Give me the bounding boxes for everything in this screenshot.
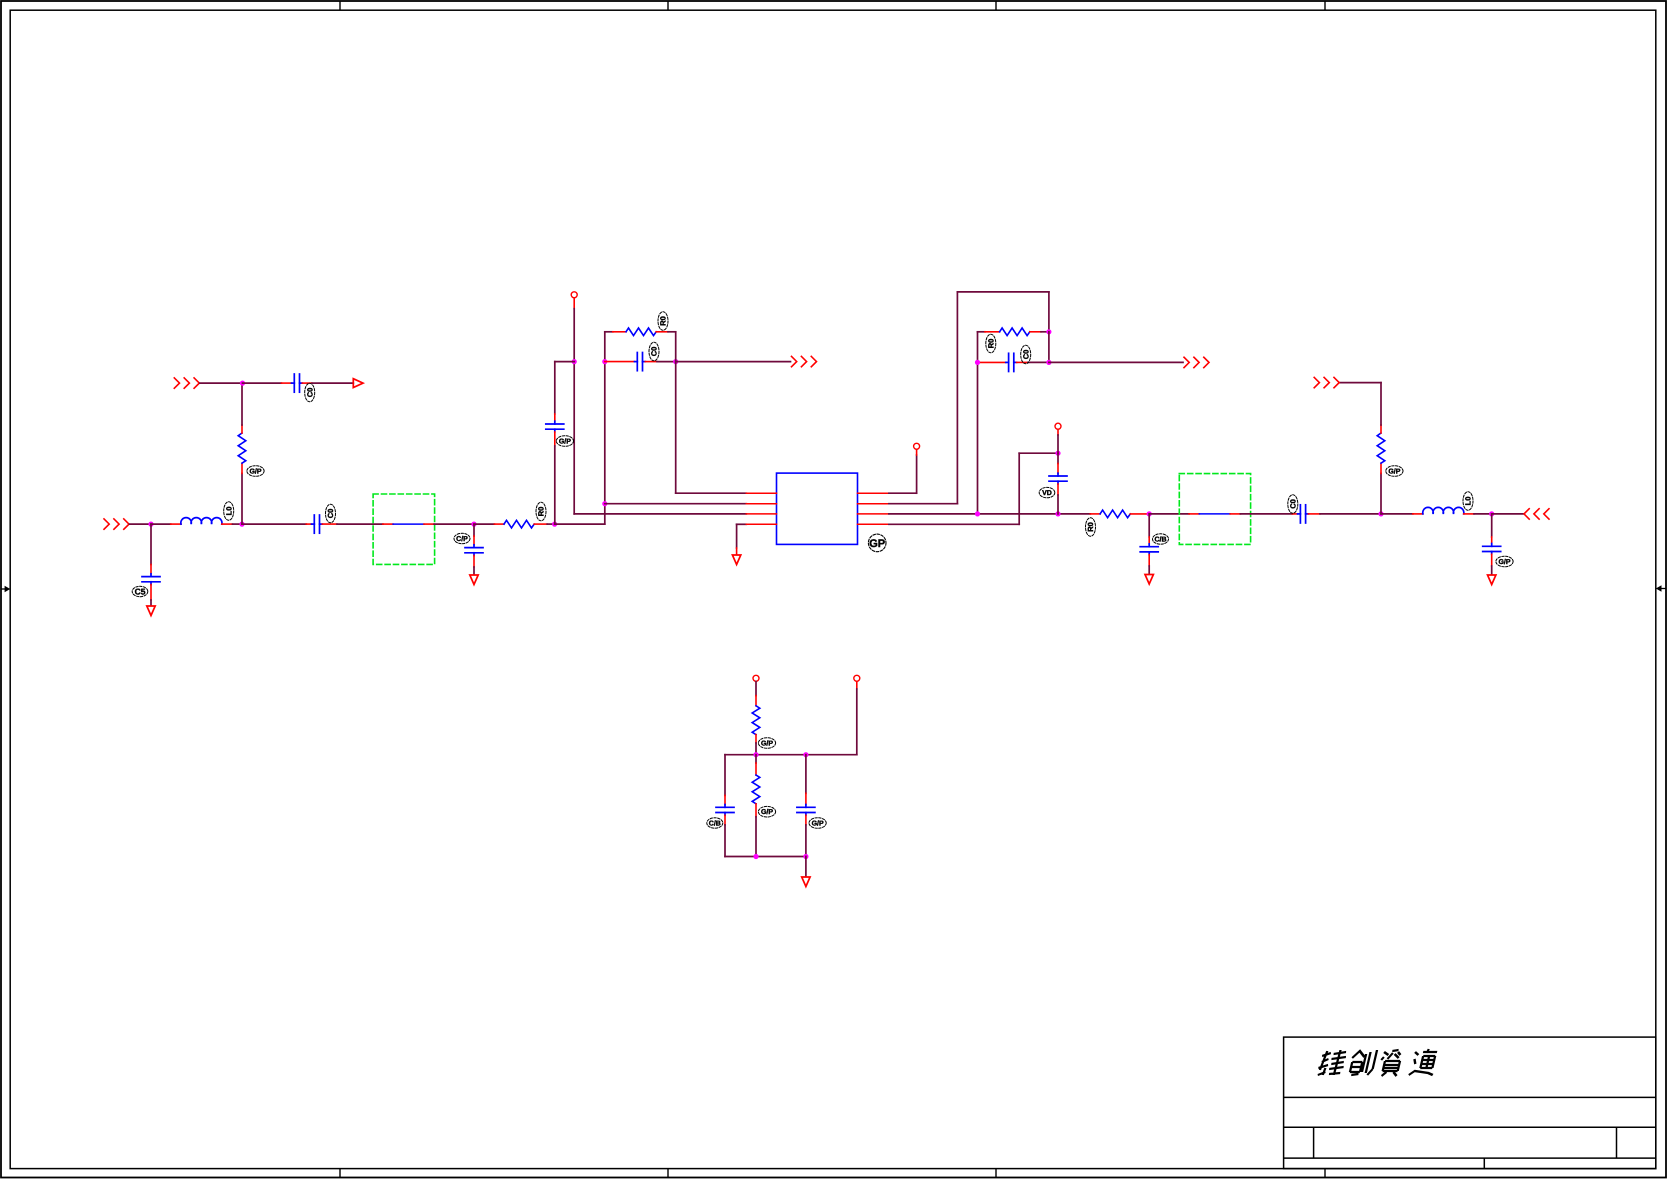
svg-text:C/B: C/B [709,819,721,827]
wire [151,523,171,525]
TITLE BLOCK [1284,1037,1656,1169]
inductor L2 [1413,507,1474,513]
capacitor C0 (series, top left) [281,374,312,392]
pin 8 right [858,492,889,494]
node junction [240,381,245,386]
node junction [1489,511,1494,516]
wire rail down [977,332,979,514]
inductor L1 [171,518,233,524]
wire [1320,513,1381,515]
top bus wire [725,754,857,756]
zone tick bottom 3 [995,1169,997,1178]
variant box 2 (green dashed) [1179,474,1250,545]
svg-text:G/P: G/P [812,819,824,827]
label C3 [649,342,659,361]
capacitor C2 (series on main line) [306,515,337,533]
svg-text:G/P: G/P [761,740,773,748]
row1 wire [676,492,747,494]
wire to output connector [1049,361,1183,363]
label C9 [1288,495,1298,514]
glyph 緯 [1317,1050,1348,1075]
node junction [471,522,476,527]
resistor R6 (vertical right) [1377,425,1385,473]
pin 7 right [858,503,889,505]
row2 wire top loop [889,292,1049,504]
node junction [1046,360,1051,365]
pin 1 left [746,492,776,494]
wire [1381,513,1413,515]
row4 wire loop [889,453,1058,524]
wire [150,524,152,564]
connector J5 >>> (top right in) [1314,377,1339,387]
open arrow out [353,379,363,388]
right branch: wire [805,755,807,805]
svg-text:C0: C0 [650,347,659,357]
node junction [148,522,153,527]
row3 wire from pin line [574,513,746,515]
wire [434,523,474,525]
variant box (green dashed) [373,494,435,564]
row1 wire to power pin [889,450,917,494]
zone tick bottom 4 [1324,1169,1326,1178]
wire [200,382,243,384]
zone tick top 1 [339,1,341,10]
ground [470,575,478,585]
capacitor C6 (series) [978,353,1049,371]
left centering arrow [1,586,10,592]
node junction [673,359,678,364]
label G/P R7 [758,738,775,749]
svg-text:R0: R0 [537,507,546,517]
wire to ground [805,857,807,877]
wire from P5 down [856,682,858,755]
capacitor C11 (shunt) [716,805,734,857]
wire [130,523,151,525]
IC U1 body [777,473,858,544]
node junction cap row [602,359,607,364]
wire rail right down [1048,332,1050,363]
zone tick top 2 [667,1,669,10]
svg-text:C0: C0 [326,509,335,519]
pin 5 right [858,523,889,525]
row3 wire (main right line) [889,513,1090,515]
svg-text:L0: L0 [224,507,233,516]
label C/B C11 [707,818,723,828]
label G/P R8 [758,806,775,817]
bottom bus wire [725,856,806,858]
wire to output connector [676,361,791,363]
wire [150,600,152,606]
wire [1340,383,1381,425]
svg-text:C5: C5 [135,586,146,596]
node junction [1378,511,1383,516]
wire [337,523,383,525]
glyph 創 [1348,1050,1377,1075]
left branch wire [724,755,726,805]
row4 ground branch wire [737,523,747,525]
node junction row2 [602,501,607,506]
pin 2 left [746,503,776,505]
label L1 [224,502,234,521]
node junction [1147,511,1152,516]
label C/B [1153,534,1169,544]
resistor R2 (horizontal) [494,520,547,528]
wire [1474,513,1492,515]
connector J4 >>> (mid right out) [1184,357,1209,367]
label C/P [454,533,470,543]
pin 4 left [746,523,776,525]
main line: wire [242,523,306,525]
power pin P3 (red circle) [1055,423,1061,429]
svg-text:L0: L0 [1464,497,1473,506]
net tie FB1 inside box: pins [383,523,393,525]
resistor R3 (horizontal, feedback) [605,328,676,336]
wire [755,735,757,755]
capacitor C12 (shunt) [797,805,815,857]
wire [1240,513,1292,515]
wire [555,523,605,525]
svg-text:VD: VD [1042,490,1052,497]
svg-text:G/P: G/P [1388,468,1400,476]
power pin P2 (red circle) [914,443,920,449]
wire rail A up [604,332,606,524]
label R4 [986,334,996,353]
pin 6 right [858,513,889,515]
label C5 [132,586,148,596]
wire [755,804,757,857]
wire up to resistor [241,473,243,524]
wire rail B down [675,332,677,493]
wire [1057,429,1059,453]
svg-text:G/P: G/P [249,468,261,476]
capacitor C/P shunt [465,524,483,574]
resistor R1 (vertical) [238,425,246,473]
wire [243,382,282,384]
wire [1492,513,1524,515]
zone tick top 4 [1324,1,1326,10]
label L2 [1463,492,1473,511]
svg-text:C0: C0 [1021,350,1030,360]
resistor R4 (horizontal) [978,328,1049,336]
glyph 通 [1409,1049,1439,1075]
svg-text:R0: R0 [986,339,995,349]
right centering arrow [1656,585,1666,591]
node junction [1055,451,1060,456]
glyph 資 [1378,1050,1403,1076]
node junction [753,854,758,859]
wire down [554,362,556,414]
capacitor C10 (G/P shunt right) [1483,514,1501,575]
wire [474,523,494,525]
label GP (U1) [868,534,886,552]
power pin P4 (red circle) [753,675,759,681]
capacitor C9 (series right) [1292,505,1320,523]
connector J-IN left >>> [104,519,129,529]
svg-text:C/P: C/P [456,535,468,543]
pin 3 left [746,513,776,515]
node junction [753,752,758,757]
node junction [239,522,244,527]
ground [732,555,740,565]
wire [1149,513,1189,515]
svg-text:R0: R0 [1086,522,1095,532]
node junction [975,360,980,365]
label G/P C10 [1496,556,1513,567]
svg-text:R0: R0 [659,316,668,326]
label C0 [305,383,315,402]
ground [1488,575,1496,585]
label C6 [1021,345,1031,364]
connector J6 <<< (right in) [1524,509,1549,519]
ground [1145,575,1153,585]
power pin P5 (red circle) [854,675,860,681]
zone tick bottom 2 [667,1169,669,1178]
wire [755,682,757,706]
label G/P C12 [809,818,826,829]
wire [241,383,243,425]
company logo text 緯創資通 (hand drawn strokes) [1317,1049,1439,1076]
wire up [1380,473,1382,514]
ground [147,606,155,616]
power pin P1 (red circle) [571,292,577,298]
capacitor C8 (C/B shunt) [1140,514,1158,574]
node junction [975,511,980,516]
capacitor C4 (shunt G/P) [546,414,564,524]
svg-text:GP: GP [869,538,885,550]
node junction [803,752,808,757]
label G/P C4 [556,436,573,447]
connector J3 >>> (mid left out) [792,356,817,366]
svg-text:C0: C0 [305,388,314,398]
label C2 [326,504,336,523]
label R5 [1086,518,1096,537]
node junction [552,522,557,527]
capacitor C5 (shunt) [142,565,160,601]
svg-text:G/P: G/P [1498,558,1510,566]
wire [233,523,243,525]
label VD [1039,487,1055,497]
wire [573,298,575,514]
row2 wire [605,503,747,505]
capacitor C7 (VD shunt) [1049,453,1067,514]
zone tick top 3 [995,1,997,10]
resistor R8 (vertical) [752,775,760,804]
net tie FB2 inside box: pins [1189,513,1199,515]
svg-text:C0: C0 [1288,499,1297,509]
connector J2 >>> top left [174,378,199,388]
ground [802,877,810,887]
label R2 [536,502,546,521]
wire [312,382,353,384]
wire branch left [555,361,574,363]
capacitor C3 (series, feedback) [605,353,676,371]
svg-text:G/P: G/P [559,438,571,446]
label R3 [658,312,668,331]
label G/P R6 [1386,466,1403,477]
wire [547,523,554,525]
label G/P resistor R1 [247,466,264,477]
zone tick bottom 1 [339,1169,341,1178]
mid branch: wire [755,755,757,775]
svg-text:C/B: C/B [1154,535,1166,543]
svg-text:G/P: G/P [761,808,773,816]
node junction [1046,329,1051,334]
node junction [572,359,577,364]
resistor R5 (horizontal, right line) [1090,510,1149,518]
node junction [1055,511,1060,516]
resistor R7 (vertical) [752,706,760,735]
node junction [803,854,808,859]
